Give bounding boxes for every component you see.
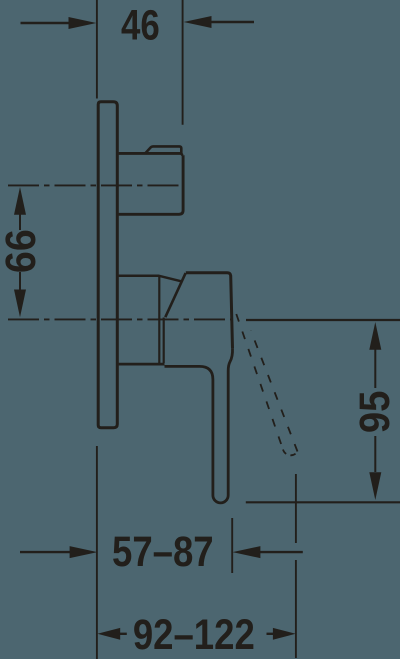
lower axis dash-dot [8,318,232,320]
lower axis solid right [246,319,400,321]
dashed lever left edge [236,314,283,450]
dim5787 arrow right [233,546,261,558]
dim66 line upper [19,213,21,230]
dim92122 arrow left [97,628,120,640]
svg-text:95: 95 [350,391,398,434]
dim95 line lower [374,436,376,472]
knob grip [145,146,183,155]
collar bottom [119,363,165,366]
wall plate [98,102,117,428]
knob base right+bottom [119,155,184,214]
lever cap chamfer [165,273,185,317]
dim5787 tail right [259,551,303,553]
dashed lever right edge [251,331,298,452]
lever stem outline [165,366,229,502]
dim46 arrow left [69,17,97,29]
lever right bend into stem [228,348,232,371]
dim46 ext line left [96,0,98,99]
knob base top edge [119,152,181,155]
dim5787 tail left [20,551,70,553]
dim46 tail right [211,21,255,23]
bottom ext line x232 [231,518,233,573]
dim92122 stub right [267,633,275,635]
dim95 line upper [374,349,376,389]
bottom ext line x296 upper [295,474,297,543]
dim5787 arrow left [70,546,98,558]
dim95 arrow down [369,472,381,500]
collar top [119,276,181,282]
dim66 arrow down [14,290,26,318]
svg-text:46: 46 [121,2,160,49]
lever tip reference line [246,501,400,503]
bottom ext line x296 lower [295,560,297,658]
dim92122 arrow right [273,628,296,640]
collar front face [158,277,160,364]
dashed lever tip arc [283,450,298,456]
dim46 arrow right [184,16,212,28]
dim46 ext line right [182,0,184,125]
upper axis (dash-dot) [8,184,182,186]
dim66 arrow up [14,187,26,215]
lever cap top and right [186,273,233,349]
dim92122 stub left [119,633,127,635]
dim46 tail left [21,22,71,24]
dim95 arrow up [369,322,381,350]
svg-text:66: 66 [0,229,45,273]
svg-text:92–122: 92–122 [133,611,255,658]
svg-text:57–87: 57–87 [112,528,214,575]
dim66 line lower [19,272,21,292]
bottom ext line x97 [96,446,98,659]
cap left edge lower [163,318,165,364]
